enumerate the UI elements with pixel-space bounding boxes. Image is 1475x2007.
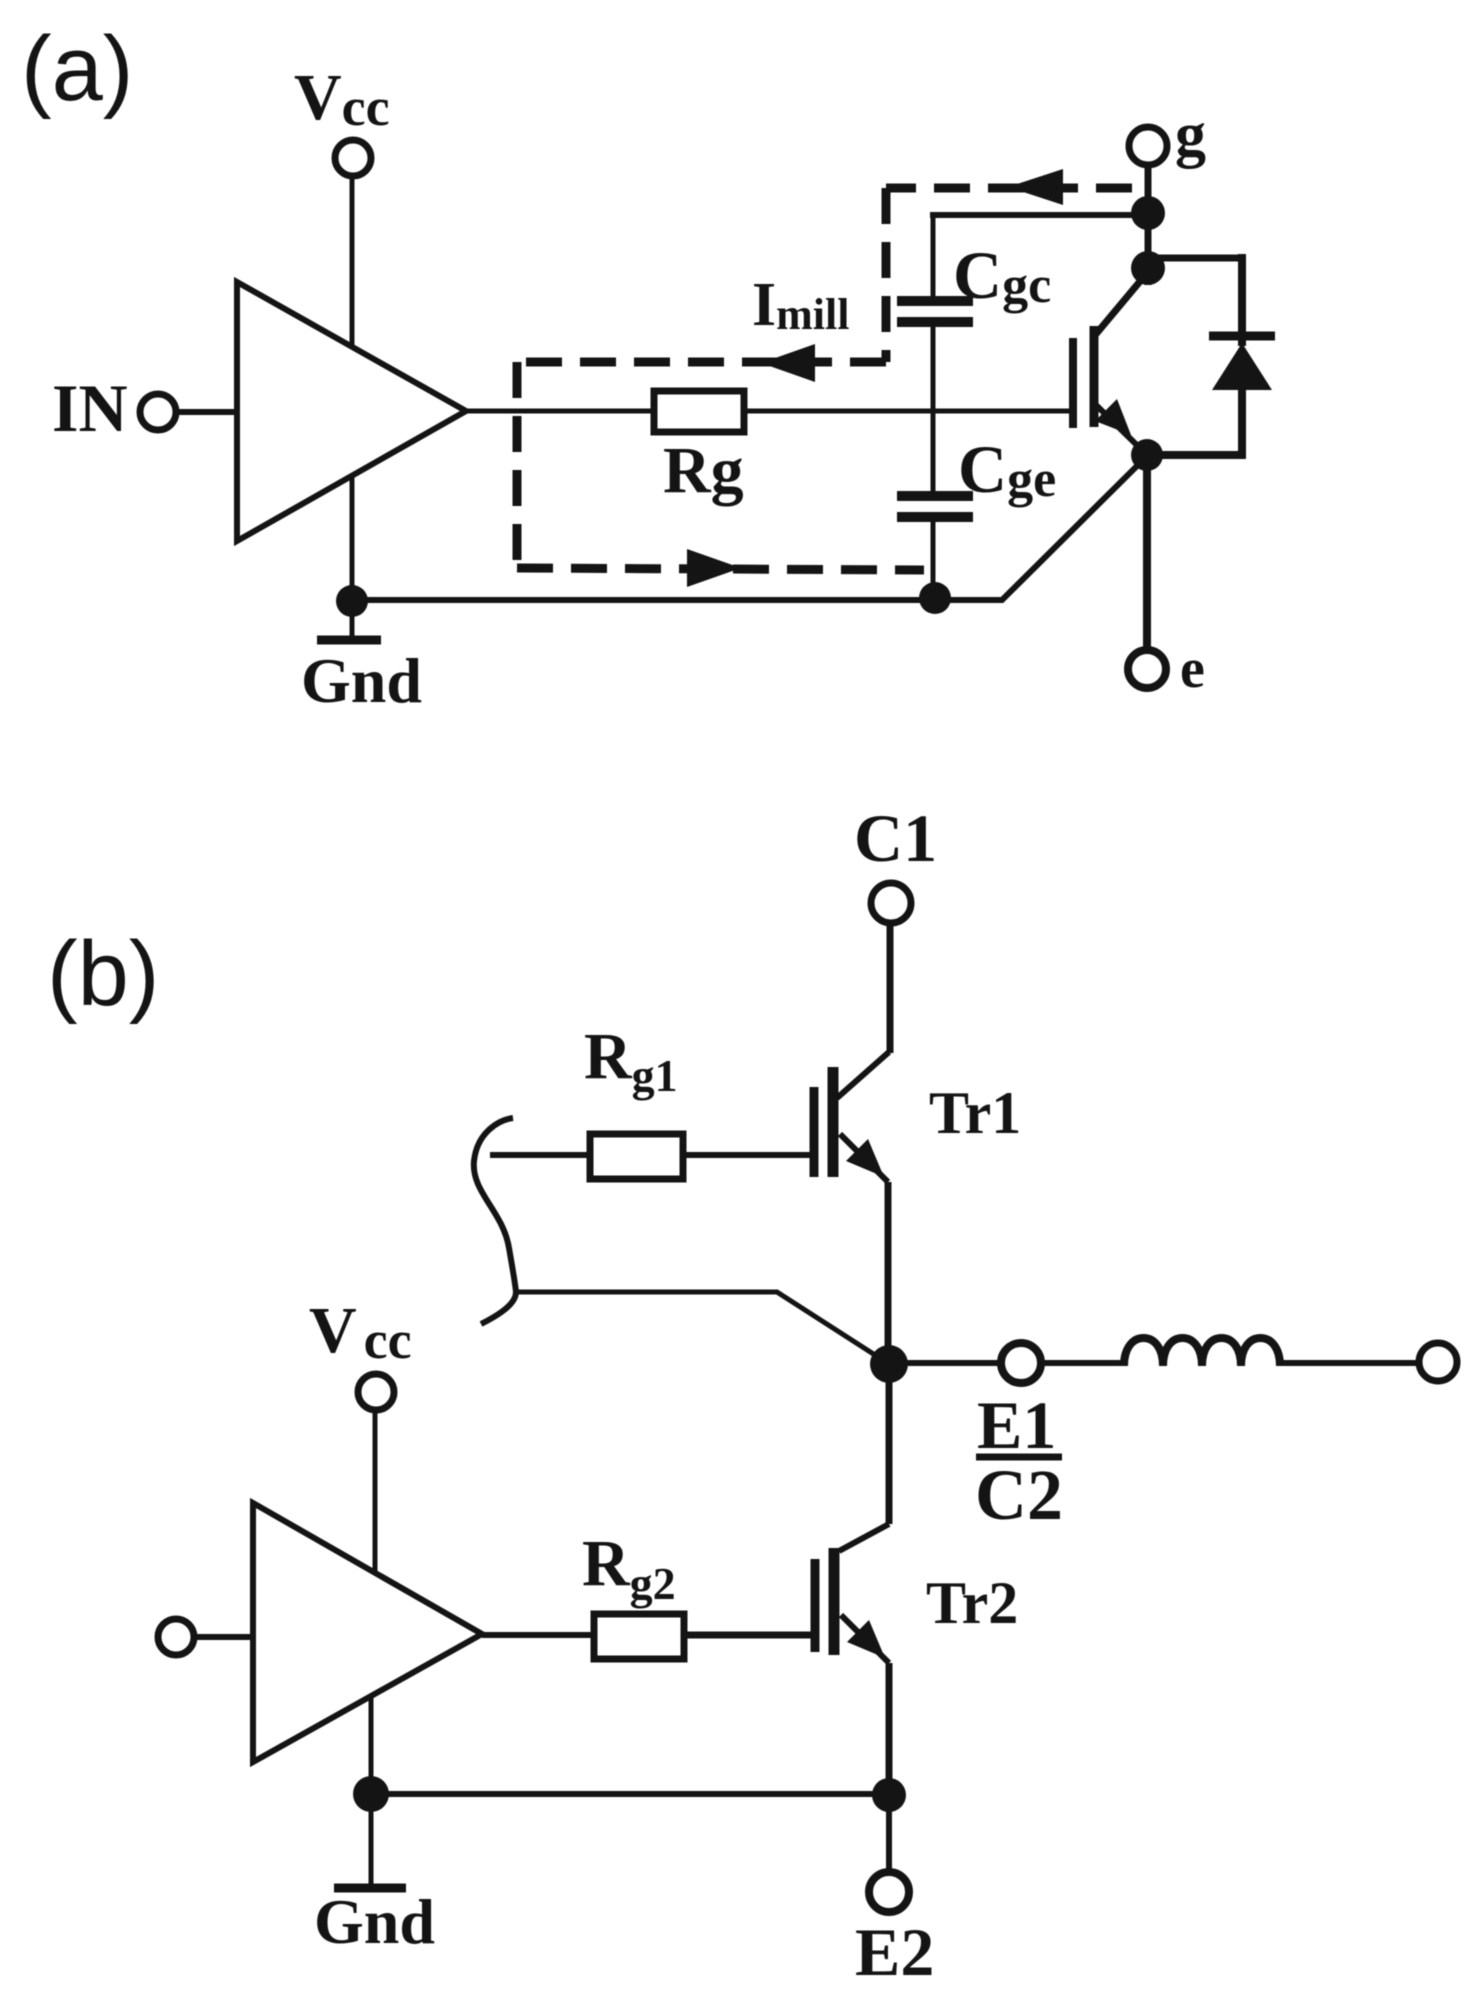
svg-text:Rg: Rg	[663, 434, 744, 507]
wire capacitor branch vertical	[931, 215, 936, 298]
terminal E2	[869, 1872, 909, 1912]
wire C1 to Tr1 collector	[887, 923, 894, 1053]
transistor Tr2 body bar	[829, 1548, 840, 1655]
wire emitter to e terminal	[1143, 455, 1151, 650]
wire node to E1C2 terminal	[889, 1360, 1001, 1366]
wire Rg1 to Tr1 gate	[683, 1152, 810, 1158]
transistor Tr1 gate bar	[810, 1087, 819, 1177]
svg-text:C1: C1	[854, 800, 937, 876]
node E2 junction	[872, 1778, 906, 1812]
wire Tr2 collector	[839, 1524, 889, 1551]
diode D1	[1238, 254, 1246, 346]
wire Q1 emitter	[1096, 405, 1147, 455]
Tr1 emitter arrow	[846, 1139, 884, 1177]
node Gnd junction (b)	[353, 1776, 389, 1812]
svg-text:C2: C2	[975, 1455, 1063, 1535]
svg-text:Cgc: Cgc	[953, 237, 1051, 314]
wire buffer (b) to Gnd	[369, 1696, 374, 1885]
wire buffer output / gate line	[466, 409, 1070, 414]
svg-text:Gnd: Gnd	[301, 645, 422, 716]
svg-text:Imill: Imill	[752, 271, 849, 339]
wire input (b)	[194, 1634, 253, 1640]
resistor Rg1	[590, 1134, 683, 1179]
terminal right output	[1419, 1343, 1457, 1381]
terminal e	[1128, 650, 1166, 688]
node emitter junction	[1131, 439, 1163, 471]
svg-text:Tr2: Tr2	[926, 1570, 1018, 1636]
wire brace to output node	[516, 1292, 889, 1364]
Tr2 emitter arrow	[847, 1620, 885, 1658]
wire g to junctions	[1145, 165, 1152, 285]
terminal C1	[871, 883, 911, 923]
node collector top	[1131, 251, 1165, 285]
resistor Rg	[654, 391, 744, 432]
wire Q1 collector	[1096, 273, 1147, 334]
terminal E1/C2	[1001, 1343, 1041, 1383]
terminal input (b)	[158, 1619, 194, 1655]
resistor Rg2	[594, 1614, 684, 1659]
node E1/C2 junction	[870, 1345, 908, 1383]
svg-text:Cge: Cge	[958, 431, 1056, 508]
svg-text:(a): (a)	[21, 18, 133, 120]
wire to E2 terminal	[886, 1795, 892, 1874]
svg-text:Vcc: Vcc	[309, 1294, 412, 1370]
wire bottom rail (b)	[371, 1791, 889, 1797]
wire Tr1 collector	[837, 1052, 889, 1098]
wire Vcc (b)	[373, 1410, 378, 1573]
terminal IN	[140, 394, 176, 430]
svg-text:IN: IN	[52, 370, 128, 446]
svg-text:Rg1: Rg1	[584, 1020, 678, 1101]
wire Tr2 emitter down	[886, 1663, 893, 1795]
svg-text:g: g	[1175, 101, 1206, 169]
wire top rail to diode	[1148, 255, 1242, 262]
wire Tr1 emitter	[840, 1134, 888, 1182]
wire Tr1 emitter down	[885, 1182, 892, 1364]
arrow return bottom	[687, 549, 741, 587]
wire Tr2 emitter	[841, 1615, 889, 1663]
transistor Q1 IGBT gate bar	[1069, 338, 1077, 428]
wire bottom rail of diode	[1147, 451, 1242, 459]
wire inductor to right terminal	[1280, 1360, 1419, 1366]
wire dashed Miller current loop	[886, 184, 1132, 193]
svg-text:E2: E2	[855, 1914, 934, 1990]
svg-text:Vcc: Vcc	[294, 61, 390, 137]
svg-text:e: e	[1180, 638, 1205, 700]
svg-text:Tr1: Tr1	[929, 1080, 1021, 1146]
wire brace to Rg1	[490, 1152, 590, 1158]
Q1 emitter arrow	[1095, 399, 1131, 435]
op-amp buffer U1	[237, 282, 466, 541]
arrow Imill top	[1008, 169, 1063, 205]
node below g	[1131, 196, 1165, 230]
wire IN to buffer	[176, 409, 237, 415]
transistor Q1 IGBT body bar	[1090, 326, 1099, 427]
op-amp buffer U2	[253, 1503, 482, 1762]
capacitor Cge	[897, 491, 973, 501]
svg-text:E1: E1	[977, 1387, 1056, 1463]
transistor Tr2 gate bar	[811, 1559, 820, 1652]
ground Gnd (b)	[334, 1884, 406, 1893]
transistor Tr1 body bar	[828, 1067, 839, 1177]
terminal Vcc	[335, 140, 371, 176]
wire gate node to g node	[930, 212, 1148, 218]
wire bottom emitter return	[352, 456, 1147, 600]
svg-text:(b): (b)	[47, 923, 159, 1025]
wire Tr2 collector up	[886, 1364, 893, 1524]
node Gnd junction	[336, 585, 368, 617]
svg-text:Gnd: Gnd	[314, 1886, 435, 1957]
svg-text:Rg2: Rg2	[582, 1527, 676, 1609]
terminal Vcc (b)	[358, 1374, 394, 1410]
terminal g	[1129, 127, 1167, 165]
brace squiggle	[474, 1118, 516, 1324]
wire Vcc to buffer	[350, 176, 355, 347]
wire Rg2 to Tr2 gate	[684, 1632, 811, 1639]
wire buffer to Gnd	[350, 476, 355, 637]
wire buffer output to Rg2	[482, 1632, 594, 1638]
ground Gnd	[317, 636, 381, 645]
capacitor Cgc	[897, 296, 973, 306]
wire terminal to inductor	[1041, 1360, 1124, 1366]
node Cge junction	[919, 582, 951, 614]
inductor L1	[1124, 1338, 1280, 1366]
arrow Imill mid	[761, 344, 815, 382]
